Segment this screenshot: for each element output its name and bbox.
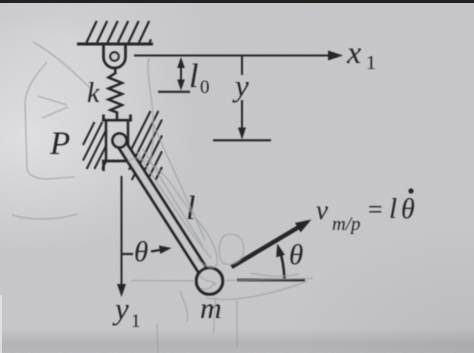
slider block P top plate (102, 115, 132, 121)
ceiling hatching (87, 21, 152, 43)
svg-text:=: = (368, 195, 383, 224)
slider block P bottom plate (102, 161, 132, 171)
angle theta arc arrow (276, 244, 285, 279)
svg-text:v: v (316, 195, 328, 225)
mass m circle (196, 268, 222, 294)
svg-text:y: y (232, 68, 249, 103)
label y1 (112, 291, 141, 332)
svg-text:1: 1 (366, 52, 376, 74)
svg-text:l: l (389, 193, 397, 225)
label x1 (346, 34, 376, 74)
clevis bracket (104, 45, 126, 68)
svg-text:m: m (200, 292, 222, 325)
svg-text:x: x (346, 34, 361, 70)
velocity vector v_m/p (232, 220, 312, 268)
dimension l0 double arrow (158, 57, 190, 92)
svg-text:θ: θ (289, 239, 303, 271)
svg-text:θ: θ (401, 194, 415, 225)
x1 axis (134, 51, 343, 61)
label l0 (189, 58, 210, 98)
ceiling line (77, 43, 153, 46)
pencil sketch marks (12, 42, 313, 353)
svg-text:1: 1 (131, 311, 141, 332)
y1 axis (117, 176, 126, 297)
dimension y arrow (213, 56, 271, 140)
svg-text:m/p: m/p (332, 214, 361, 235)
label v_m/p = l theta-dot (316, 188, 415, 235)
wall hatching right of slider (129, 111, 162, 180)
clevis pin (110, 52, 119, 61)
svg-text:k: k (87, 78, 100, 109)
svg-text:0: 0 (200, 77, 210, 98)
svg-text:l: l (189, 58, 198, 95)
angle theta reference line (237, 279, 305, 282)
svg-text:P: P (49, 126, 70, 162)
svg-text:θ: θ (134, 236, 148, 268)
pivot pin on slider (113, 134, 127, 148)
spring k (109, 69, 123, 120)
theta label at y1 axis with leader arrow (122, 236, 172, 268)
wall hatching left of slider (83, 122, 106, 169)
slider block P side rails (105, 120, 108, 161)
rod body (118, 141, 207, 272)
svg-text:y: y (112, 291, 129, 326)
